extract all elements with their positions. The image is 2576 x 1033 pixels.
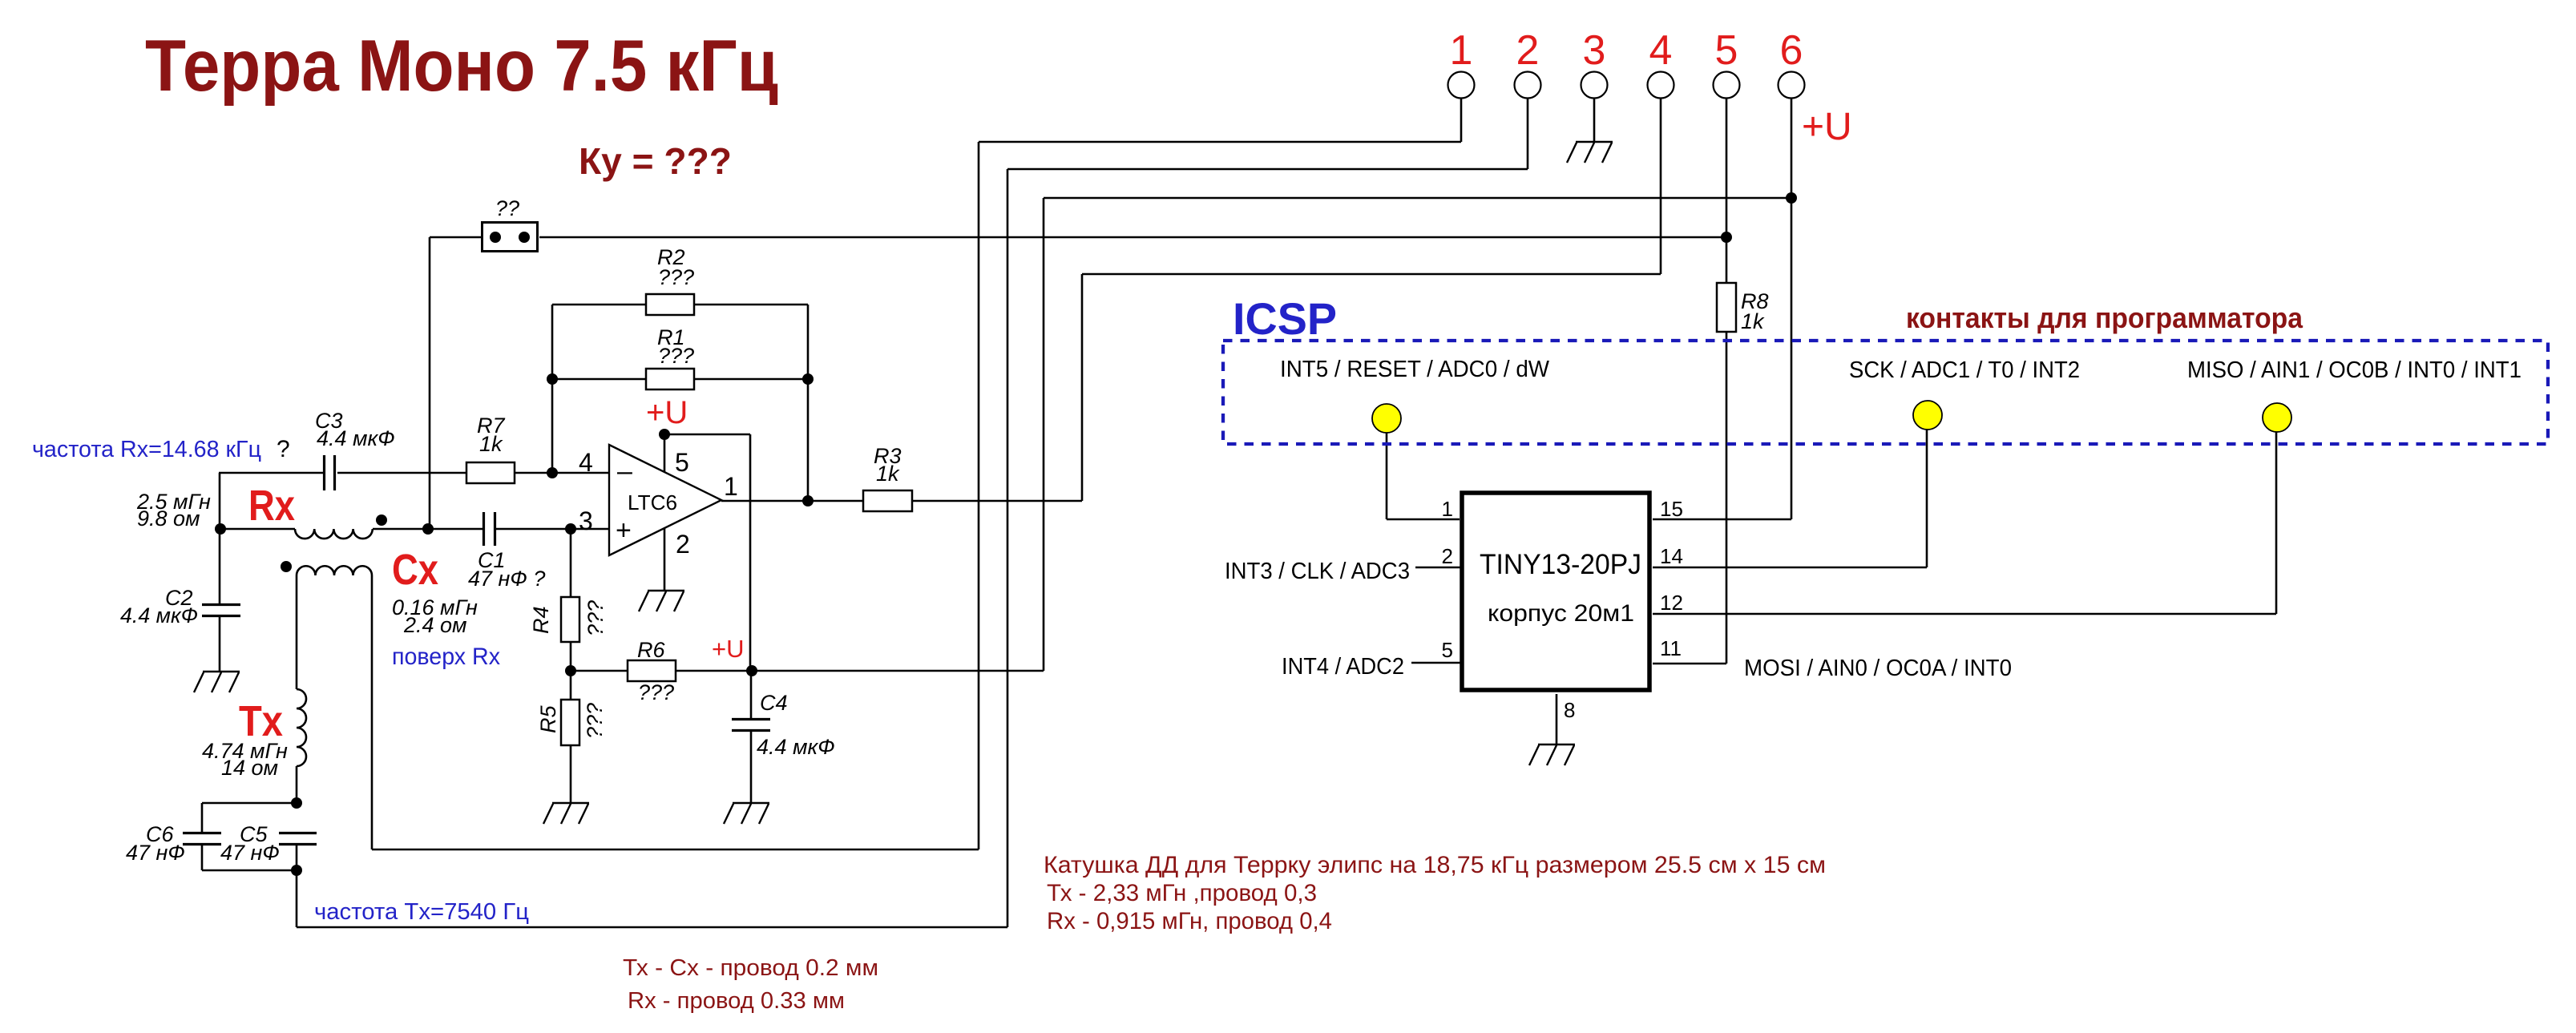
svg-text:+U: +U — [646, 395, 688, 430]
svg-text:2: 2 — [1516, 27, 1540, 74]
svg-text:3: 3 — [1583, 27, 1606, 74]
svg-text:1k: 1k — [479, 432, 503, 456]
svg-text:INT5 / RESET / ADC0 / dW: INT5 / RESET / ADC0 / dW — [1280, 357, 1550, 382]
svg-text:1: 1 — [724, 472, 738, 501]
svg-text:+U: +U — [1802, 106, 1852, 148]
svg-text:ICSP: ICSP — [1233, 293, 1337, 344]
svg-text:MISO / AIN1 / OC0B / INT0 / IN: MISO / AIN1 / OC0B / INT0 / INT1 — [2187, 357, 2521, 383]
svg-text:5: 5 — [1715, 27, 1738, 74]
svg-text:Ку = ???: Ку = ??? — [579, 140, 732, 182]
svg-text:2.4 ом: 2.4 ом — [403, 613, 467, 637]
svg-text:Rx - провод 0.33 мм: Rx - провод 0.33 мм — [628, 988, 845, 1014]
svg-text:1k: 1k — [1741, 309, 1765, 333]
svg-text:Rx: Rx — [248, 482, 295, 530]
svg-text:Тх - 2,33 мГн ,провод 0,3: Тх - 2,33 мГн ,провод 0,3 — [1047, 880, 1317, 906]
svg-text:12: 12 — [1660, 591, 1683, 615]
svg-text:4.4 мкФ: 4.4 мкФ — [317, 426, 395, 450]
svg-text:–: – — [617, 456, 632, 486]
svg-text:MOSI / AIN0 / OC0A / INT0: MOSI / AIN0 / OC0A / INT0 — [1744, 656, 2012, 681]
svg-text:47 нФ: 47 нФ — [220, 841, 280, 865]
svg-text:5: 5 — [675, 448, 689, 477]
svg-text:3: 3 — [579, 506, 593, 535]
svg-text:???: ??? — [658, 344, 694, 368]
svg-text:Катушка ДД для Террку элипс на: Катушка ДД для Террку элипс на 18,75 кГц… — [1044, 852, 1826, 878]
svg-text:частота Tx=7540 Гц: частота Tx=7540 Гц — [314, 899, 529, 925]
svg-text:???: ??? — [658, 265, 694, 289]
svg-text:8: 8 — [1564, 698, 1575, 722]
svg-text:Тх - Сх - провод 0.2 мм: Тх - Сх - провод 0.2 мм — [623, 955, 878, 981]
svg-text:1: 1 — [1450, 27, 1473, 74]
svg-text:14 ом: 14 ом — [221, 756, 278, 780]
svg-text:9.8 ом: 9.8 ом — [137, 506, 200, 531]
svg-text:11: 11 — [1660, 636, 1682, 660]
svg-text:47 нФ ?: 47 нФ ? — [468, 567, 545, 591]
svg-text:SCK / ADC1 / T0 / INT2: SCK / ADC1 / T0 / INT2 — [1849, 357, 2080, 383]
svg-text:14: 14 — [1660, 544, 1683, 568]
svg-text:???: ??? — [638, 680, 674, 704]
svg-text:Rx - 0,915 мГн, провод 0,4: Rx - 0,915 мГн, провод 0,4 — [1047, 908, 1332, 934]
svg-text:Tx: Tx — [239, 697, 283, 745]
svg-text:???: ??? — [583, 600, 608, 636]
svg-text:5: 5 — [1442, 638, 1453, 662]
svg-text:4: 4 — [579, 448, 593, 477]
svg-text:4.4 мкФ: 4.4 мкФ — [757, 735, 835, 759]
svg-text:4.4 мкФ: 4.4 мкФ — [120, 603, 198, 627]
svg-text:INT4 / ADC2: INT4 / ADC2 — [1282, 654, 1404, 680]
svg-text:6: 6 — [1780, 27, 1803, 74]
svg-text:контакты для программатора: контакты для программатора — [1906, 301, 2303, 334]
svg-text:C4: C4 — [760, 691, 788, 715]
svg-text:INT3 / CLK / ADC3: INT3 / CLK / ADC3 — [1225, 559, 1410, 584]
svg-text:корпус 20м1: корпус 20м1 — [1488, 600, 1634, 627]
svg-text:???: ??? — [583, 703, 607, 739]
svg-text:R4: R4 — [529, 606, 553, 634]
svg-text:TINY13-20PJ: TINY13-20PJ — [1480, 549, 1641, 580]
svg-text:15: 15 — [1660, 497, 1683, 521]
svg-text:?: ? — [277, 436, 290, 462]
svg-text:1: 1 — [1442, 497, 1453, 521]
svg-text:1k: 1k — [876, 462, 900, 486]
svg-text:R6: R6 — [637, 638, 665, 662]
svg-text:LTC6: LTC6 — [628, 490, 677, 514]
svg-text:Cx: Cx — [392, 546, 438, 594]
svg-text:4: 4 — [1649, 27, 1673, 74]
svg-text:+: + — [616, 515, 632, 546]
svg-text:R5: R5 — [536, 705, 560, 733]
svg-text:2: 2 — [676, 530, 690, 559]
svg-text:поверх Rx: поверх Rx — [392, 644, 500, 670]
svg-text:??: ?? — [495, 196, 519, 220]
svg-text:+U: +U — [712, 635, 745, 663]
svg-text:2: 2 — [1442, 544, 1453, 568]
svg-text:Терра Моно 7.5 кГц: Терра Моно 7.5 кГц — [145, 26, 778, 107]
svg-text:47 нФ: 47 нФ — [126, 841, 185, 865]
svg-text:частота Rx=14.68 кГц: частота Rx=14.68 кГц — [32, 437, 261, 462]
